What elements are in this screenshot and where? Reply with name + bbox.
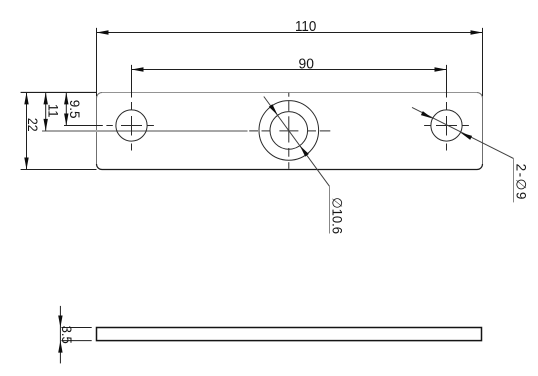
dimension 110 line (97, 32, 483, 34)
dim 11 top arrow (44, 92, 48, 104)
dim 3.5 bottom arrow (58, 341, 62, 353)
dim 22 bottom extension line (21, 169, 97, 171)
dim 110 right arrow (471, 30, 483, 34)
dim 22 top extension line (21, 91, 97, 93)
dim 3.5 bottom extension line (61, 340, 91, 342)
svg-text:110: 110 (295, 18, 316, 35)
dim 110 right extension line (482, 28, 484, 96)
right hole (431, 110, 462, 141)
dim 90 left arrow (132, 67, 144, 71)
leader 2-dia9 upper arrow (421, 111, 433, 118)
dim 11 bottom arrow (44, 119, 48, 131)
mid-height gray extension line (dim 11) (42, 130, 248, 132)
center hole inner circle (270, 112, 308, 150)
dim 3.5 top arrow (58, 316, 62, 328)
left hole centerlines (64, 65, 154, 151)
svg-text:2-∅9: 2-∅9 (513, 164, 528, 201)
svg-text:3.5: 3.5 (59, 326, 74, 344)
svg-text:11: 11 (46, 104, 61, 118)
leader 10.6 vertical stub (329, 186, 331, 233)
plate outline right edge (477, 93, 483, 165)
leader 2-dia9 lower arrow (460, 133, 472, 140)
dim 3.5 top extension line (61, 327, 91, 329)
dimension 11 line (45, 92, 47, 130)
dimension 22 line (26, 92, 28, 169)
side view plate outline (97, 328, 482, 341)
svg-text:22: 22 (25, 118, 41, 132)
dimension 9.5 line (65, 92, 67, 125)
dimension 90 line (132, 69, 447, 71)
dim 90 right arrow (435, 67, 447, 71)
center hole outer circle (259, 101, 319, 161)
plate outline bottom edge (97, 164, 483, 170)
svg-text:90: 90 (299, 56, 314, 72)
right hole centerlines (424, 65, 469, 151)
left hole (116, 110, 147, 141)
plate outline left edge (97, 93, 103, 165)
center hole centerlines (249, 93, 330, 169)
leader line for holes 2-dia9 (412, 107, 514, 158)
dim 110 left arrow (97, 30, 109, 34)
leader 2-dia9 vertical stub (513, 159, 515, 203)
leader line for hole dia 10.6 (264, 97, 330, 187)
dimension 3.5 line (59, 306, 61, 364)
plate outline top edge (102, 92, 477, 94)
dim 9.5 top arrow (64, 92, 68, 104)
dim 22 top arrow (24, 92, 28, 104)
dim 9.5 bottom arrow (64, 114, 68, 126)
svg-text:9.5: 9.5 (67, 100, 82, 119)
dim 110 left extension line (96, 28, 98, 96)
leader 10.6 lower arrow (300, 146, 309, 157)
dim 22 bottom arrow (24, 158, 28, 170)
svg-text:∅10.6: ∅10.6 (330, 197, 345, 234)
leader 10.6 upper arrow (269, 104, 278, 115)
